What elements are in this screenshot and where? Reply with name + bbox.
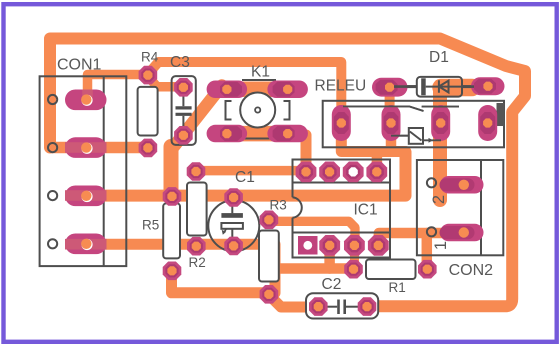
resistor R4 body	[138, 87, 158, 136]
wire IC1 pin7 dropper	[372, 152, 383, 172]
relay RELEU coil diagonal	[410, 132, 422, 141]
svg-text:K1: K1	[251, 64, 270, 81]
wire band B: R3 top across IC1 to pin 6	[269, 221, 355, 244]
capacitor C3 symbol	[182, 95, 184, 106]
pad K1-1	[207, 81, 248, 99]
connector CON1 inner line	[103, 76, 105, 266]
svg-text:R2: R2	[189, 255, 206, 270]
pad R5 bottom	[163, 262, 182, 281]
wire IC1 pin8 to R1 right via CON2	[379, 233, 442, 242]
svg-text:R4: R4	[141, 50, 159, 65]
pad R1 left	[344, 260, 363, 279]
relay K1 body top edge	[242, 79, 276, 81]
pad IC1 pin 8	[296, 162, 317, 183]
resistor R2 body	[187, 183, 207, 236]
svg-text:2: 2	[430, 195, 448, 204]
IC IC1 outline	[293, 160, 391, 258]
pad IC1 pin 7b	[368, 235, 389, 256]
diode D1 leads	[405, 85, 417, 88]
diode D1 triangle symbol	[439, 80, 449, 93]
pad R3 bottom	[260, 285, 279, 304]
wire IC1 pin6 stub to R1 left pad	[350, 249, 359, 263]
wire diagonal R5 top to K1 top-left	[164, 147, 179, 197]
wire D1 left pad down to RELEU pad2	[385, 87, 395, 122]
svg-text:C1: C1	[235, 169, 255, 186]
pad K1-4	[267, 125, 308, 143]
capacitor C3 outline	[172, 76, 196, 145]
wire CON1 pad1 elbow up to R4	[88, 75, 147, 101]
svg-text:R5: R5	[142, 218, 159, 233]
wire R3 bottom to C2 left	[269, 295, 314, 307]
pad R2 bottom	[187, 237, 206, 256]
relay RELEU contact lever	[343, 106, 424, 111]
wire R4 top to RELEU pad1 (upper long horizontal)	[148, 62, 341, 121]
wire R5 bottom to R3 bottom	[172, 269, 264, 293]
svg-text:RELEU: RELEU	[315, 78, 367, 95]
pad D1 cathode	[471, 77, 505, 95]
pad IC1 pin 1 (square, top row left? bottom-left square)	[298, 236, 318, 255]
svg-text:CON1: CON1	[57, 56, 102, 73]
wire branch down to R1 right pad	[422, 233, 433, 262]
resistor R3 body	[259, 231, 279, 282]
relay K1 circle	[240, 93, 275, 128]
wire band D: CON1 pad4 - R2 bottom - C1 bottom - jog down to R3 bottom	[87, 244, 275, 293]
capacitor C1 circle	[208, 200, 259, 251]
capacitor C2 symbol	[327, 306, 337, 308]
pad IC1 pin 6	[344, 235, 365, 256]
svg-text:CON2: CON2	[449, 262, 494, 279]
wire band A: CON1 pad3 - R5 top - C1 top - across IC1 - riser to relay segment	[87, 152, 406, 196]
pad C3 bottom	[174, 126, 193, 145]
svg-text:R1: R1	[389, 280, 406, 295]
pad IC1 pin 11	[366, 162, 387, 183]
resistor R5 body	[163, 203, 180, 258]
pad K1-2	[267, 81, 308, 99]
pad D1 anode	[372, 78, 408, 97]
connector CON2 hole circles	[427, 178, 436, 187]
connector CON1 hole circles	[48, 95, 57, 104]
relay K1 center dot	[255, 107, 260, 112]
wire R4 top to C3 top	[148, 76, 183, 87]
pad IC1 pin 9	[319, 162, 340, 183]
capacitor C1 symbol	[231, 204, 233, 213]
relay RELEU coil box	[409, 128, 423, 144]
diode D1 body	[417, 77, 462, 97]
relay K1 body bottom edge	[242, 138, 276, 140]
connector CON1 outline	[40, 76, 127, 266]
wire K1 top pads link	[227, 82, 288, 98]
pad IC1 pin 10 (white hole)	[343, 162, 364, 183]
pad R2 top	[187, 162, 206, 181]
svg-text:C3: C3	[170, 54, 190, 71]
pad R5 top	[163, 187, 182, 206]
relay K1 left bracket	[226, 101, 232, 120]
wire IC1 pin5 dropper to R1 band	[324, 246, 335, 269]
wire R1 left band	[275, 263, 350, 274]
wire diagonal continuation to K1	[172, 86, 223, 150]
pad R3 top	[260, 211, 279, 230]
wire relay segment S with risers/droppers	[341, 120, 405, 152]
relay RELEU outline	[323, 101, 504, 148]
svg-text:R3: R3	[270, 198, 287, 213]
pad RELEU-3	[431, 105, 450, 141]
relay RELEU lever over pads	[343, 106, 424, 111]
wire K1 bottom-right to IC1 pin1	[288, 135, 306, 170]
pad RELEU-2	[382, 105, 401, 141]
svg-text:1: 1	[432, 241, 450, 250]
wire R2 top to IC1 pin8	[196, 166, 306, 176]
svg-text:C2: C2	[322, 276, 342, 293]
wire K1 bottom pads link	[227, 126, 288, 142]
capacitor C2 outline	[306, 293, 378, 318]
IC IC1 notch	[293, 197, 302, 218]
pad CON1-1	[65, 90, 107, 111]
wire main outer loop: CON1 pad2 up, across top, down right side, bottom to C2	[50, 39, 525, 307]
pad R1 right	[418, 260, 437, 279]
pad C1 bottom	[224, 237, 243, 256]
pad CON2-1	[440, 224, 484, 242]
pad C2 right	[358, 297, 377, 316]
pad K1-3	[207, 125, 248, 143]
pad CON1-3	[65, 186, 107, 207]
diode D1 lead over pads	[343, 87, 474, 143]
pad RELEU-1	[332, 105, 351, 141]
pad RELEU-4	[478, 105, 497, 141]
pad CON1-4	[65, 234, 107, 255]
relay RELEU coil leads	[391, 135, 409, 137]
relay RELEU coil leads over pads	[391, 135, 409, 137]
resistor R1 body	[366, 260, 416, 280]
wire D1 cathode band	[441, 79, 472, 97]
relay K1 right bracket	[284, 101, 290, 120]
connector CON2 outline	[417, 160, 503, 255]
wire D1 cathode down through RELEU pad3 to CON2 pad2	[433, 87, 447, 201]
IC IC1 pin row lines	[293, 182, 391, 184]
wire CON1 pad2 to R4 bottom	[51, 142, 148, 154]
pad R4 top	[139, 66, 158, 85]
pad IC1 pin 5	[319, 235, 340, 256]
pad CON1-2	[65, 137, 107, 158]
diode D1 cathode band	[421, 78, 426, 95]
pad R4 bottom	[139, 139, 158, 158]
pad C3 top	[174, 78, 193, 97]
svg-text:D1: D1	[429, 49, 449, 66]
pad C2 left	[309, 297, 328, 316]
pad C1 top	[224, 188, 243, 207]
wire RELEU pad2 riser	[386, 128, 397, 152]
pad CON2-2	[440, 176, 484, 194]
relay RELEU pin1 mark	[497, 103, 505, 126]
svg-text:IC1: IC1	[354, 202, 378, 219]
connector CON2 inner line	[480, 160, 482, 255]
